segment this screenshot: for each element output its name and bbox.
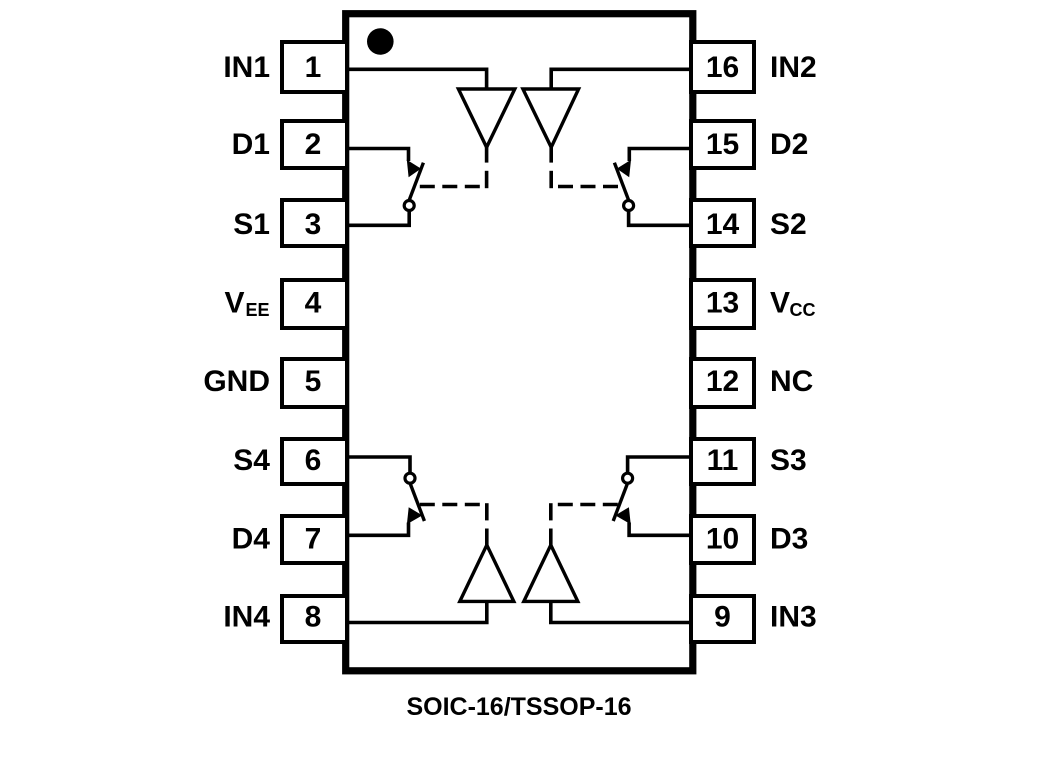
- wire U3 dashed control to switch SW3: [549, 503, 553, 520]
- wire IN2 to inverter U2 input: [551, 69, 689, 90]
- pin 13 box: [691, 280, 754, 328]
- switch SW2 arrowhead: [617, 160, 631, 177]
- wire D1 to switch SW1: [349, 149, 409, 162]
- svg-text:2: 2: [305, 128, 322, 161]
- wire D3 to switch SW3: [629, 523, 689, 536]
- wire IN1 to inverter U1 input: [349, 69, 487, 90]
- switch SW3 arrowhead: [615, 507, 630, 524]
- wire U2 dashed control to switch SW2: [549, 171, 553, 188]
- svg-text:S2: S2: [770, 208, 807, 241]
- pin 11 box: [691, 439, 754, 484]
- svg-text:IN4: IN4: [223, 600, 270, 633]
- svg-text:16: 16: [706, 51, 739, 84]
- wire U1 output stub: [485, 147, 489, 162]
- pin 14 box: [691, 200, 754, 246]
- svg-text:D1: D1: [232, 128, 270, 161]
- wire U1 dashed control to switch SW1: [485, 171, 489, 188]
- pin 12 box: [691, 359, 754, 407]
- IC body outline U1 package: [346, 14, 693, 671]
- svg-text:IN3: IN3: [770, 600, 817, 633]
- switch SW1 blade: [409, 163, 423, 200]
- svg-text:7: 7: [305, 522, 322, 555]
- pin 7 box: [282, 516, 347, 563]
- wire S4 to switch SW4: [349, 457, 410, 473]
- svg-text:3: 3: [305, 208, 322, 241]
- pin 8 box: [282, 596, 347, 642]
- pin 5 box: [282, 359, 347, 407]
- svg-text:IN1: IN1: [223, 51, 270, 84]
- pin 4 box: [282, 280, 347, 328]
- inverter U3: [524, 545, 578, 601]
- switch SW3 blade: [613, 484, 627, 521]
- switch SW3 contact circle: [623, 473, 633, 483]
- svg-text:V: V: [224, 287, 244, 320]
- svg-text:S4: S4: [233, 444, 270, 477]
- svg-text:S1: S1: [233, 208, 270, 241]
- svg-text:SOIC-16/TSSOP-16: SOIC-16/TSSOP-16: [406, 693, 631, 721]
- wire U4 output stub: [485, 529, 489, 546]
- pin 9 box: [691, 596, 754, 642]
- svg-text:GND: GND: [203, 365, 270, 398]
- wire S3 to switch SW3: [628, 457, 689, 473]
- svg-text:IN2: IN2: [770, 51, 817, 84]
- wire D2 to switch SW2: [629, 149, 689, 162]
- wire U2 output stub: [549, 147, 553, 162]
- svg-text:11: 11: [707, 444, 739, 477]
- wire IN3 to inverter U3 input: [551, 601, 689, 622]
- svg-text:1: 1: [305, 51, 322, 84]
- switch SW4 contact circle: [405, 473, 415, 483]
- svg-text:8: 8: [305, 600, 322, 633]
- inverter U4: [460, 545, 514, 601]
- pin 15 box: [691, 121, 754, 168]
- switch SW1 arrowhead: [407, 160, 421, 177]
- pin 1 index dot: [367, 28, 394, 55]
- wire U4 dashed control to switch SW4: [485, 503, 489, 520]
- svg-text:V: V: [770, 287, 790, 320]
- switch SW2 contact circle: [624, 201, 634, 211]
- pin 6 box: [282, 439, 347, 484]
- svg-text:15: 15: [706, 128, 739, 161]
- wire U3 output stub: [549, 529, 553, 546]
- inverter U1: [458, 89, 514, 147]
- svg-text:D2: D2: [770, 128, 808, 161]
- svg-text:S3: S3: [770, 444, 807, 477]
- pin 2 box: [282, 121, 347, 168]
- svg-text:D3: D3: [770, 522, 808, 555]
- svg-text:12: 12: [706, 365, 739, 398]
- svg-text:5: 5: [305, 365, 322, 398]
- pin 3 box: [282, 200, 347, 246]
- switch SW4 arrowhead: [407, 507, 422, 524]
- switch SW2 blade: [614, 163, 628, 200]
- svg-text:D4: D4: [232, 522, 271, 555]
- svg-text:EE: EE: [246, 300, 270, 320]
- svg-text:13: 13: [706, 287, 739, 320]
- switch SW4 blade: [410, 484, 424, 521]
- wire S2 to switch SW2: [629, 211, 689, 226]
- inverter U2: [523, 89, 579, 147]
- svg-text:9: 9: [714, 600, 731, 633]
- wire S1 to switch SW1: [349, 211, 409, 226]
- svg-text:6: 6: [305, 444, 322, 477]
- svg-text:14: 14: [706, 208, 740, 241]
- svg-text:10: 10: [706, 522, 739, 555]
- svg-text:CC: CC: [790, 300, 816, 320]
- pin 1 box: [282, 42, 347, 92]
- switch SW1 contact circle: [404, 201, 414, 211]
- wire IN4 to inverter U4 input: [349, 601, 487, 622]
- pin 10 box: [691, 516, 754, 563]
- svg-text:4: 4: [305, 287, 322, 320]
- svg-text:NC: NC: [770, 365, 813, 398]
- pin 16 box: [691, 42, 754, 92]
- wire D4 to switch SW4: [349, 523, 409, 536]
